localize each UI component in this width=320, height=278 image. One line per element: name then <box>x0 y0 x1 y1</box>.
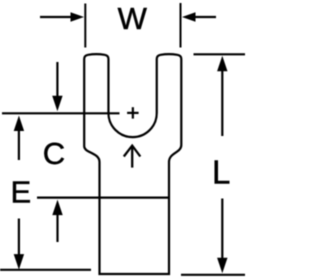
W right arrow <box>194 16 216 18</box>
svg-text:W: W <box>118 1 148 36</box>
svg-text:L: L <box>212 153 230 190</box>
L bottom arrow <box>221 199 223 260</box>
stud centerline extension <box>2 112 120 114</box>
W extension line right <box>180 3 182 48</box>
barrel-edge extension tick <box>37 197 99 199</box>
L extension line bottom <box>181 274 245 276</box>
E bottom arrow (points down to butt line) <box>18 219 20 257</box>
svg-text:E: E <box>11 175 32 210</box>
C bottom arrow (points up to barrel edge) <box>52 200 62 216</box>
L top arrow <box>217 56 227 72</box>
butt-end extension line left <box>0 269 91 271</box>
fork terminal body outline <box>84 54 181 274</box>
insertion direction arrow (open up arrow) <box>124 146 141 168</box>
stud center cross mark <box>127 107 139 118</box>
C top arrow (points down to centerline) <box>56 62 58 97</box>
E top arrow (points up to centerline) <box>14 116 24 132</box>
W left arrow <box>40 16 73 18</box>
barrel top edge (crimp line) <box>100 197 170 199</box>
svg-text:C: C <box>43 136 65 171</box>
W extension line left <box>84 4 86 48</box>
L extension line top <box>194 53 246 55</box>
